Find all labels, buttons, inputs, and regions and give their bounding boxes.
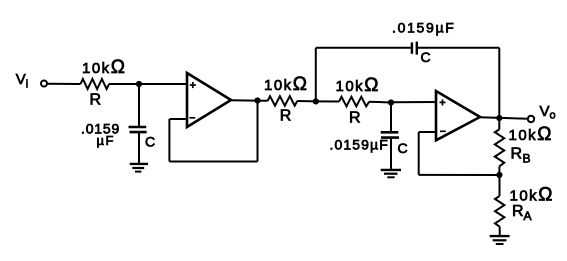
wire node E to RB: [498, 118, 500, 130]
wire node D down to C2: [390, 103, 392, 133]
wire node D to op-amp U2 + input: [391, 101, 436, 103]
capacitor C1: [129, 127, 147, 132]
wire U1 output: [230, 99, 268, 102]
wire U1 feedback right vertical: [257, 101, 259, 162]
node B junction (U1 output / feedback): [254, 97, 260, 103]
svg-text:R: R: [280, 108, 292, 125]
wire input to R1: [47, 83, 80, 85]
wire C1 to ground: [138, 132, 140, 164]
svg-text:.0159µF: .0159µF: [392, 20, 456, 36]
svg-text:µF: µF: [97, 133, 115, 148]
wire RA to ground: [499, 227, 501, 236]
wire R2 to node C: [297, 100, 316, 102]
wire U1 feedback bottom: [169, 161, 257, 163]
wire feedback top left segment: [316, 47, 411, 49]
svg-text:10kΩ: 10kΩ: [336, 75, 380, 96]
svg-text:C: C: [145, 134, 155, 150]
capacitor C2: [381, 132, 399, 137]
svg-text:B: B: [523, 152, 531, 166]
wire U2 output: [479, 117, 528, 118]
resistor RB 10k: [495, 130, 504, 167]
ref label RA: [512, 203, 532, 223]
output terminal Vo: [528, 116, 534, 122]
node F junction: [496, 172, 502, 178]
svg-text:V: V: [16, 71, 26, 88]
capacitor C3 (feedback): [412, 42, 417, 55]
wire C2 to ground: [390, 138, 392, 170]
svg-text:R: R: [511, 146, 523, 163]
svg-text:o: o: [550, 110, 556, 122]
svg-text:C: C: [421, 49, 431, 65]
node Vi label: [16, 71, 28, 91]
wire node C up (feedback riser): [315, 48, 317, 102]
wire node A to op-amp U1 + input: [139, 83, 187, 85]
wire R3 to node D: [369, 101, 391, 104]
ref label RB: [511, 146, 531, 166]
op-amp U2 plus sign: [440, 99, 446, 105]
value label .0159 uF C1: [81, 121, 120, 149]
node D junction: [388, 99, 394, 105]
wire feedback top right segment: [418, 47, 499, 49]
ground under RA: [490, 236, 510, 244]
node C junction: [313, 98, 319, 104]
svg-text:C: C: [398, 140, 408, 156]
svg-text:.0159µF: .0159µF: [330, 137, 389, 153]
wire U1 minus input stub: [169, 118, 186, 120]
wire node A down to C1: [138, 84, 140, 127]
wire U2 minus input stub: [419, 131, 436, 133]
wire R1 to node A: [109, 83, 139, 85]
svg-text:10kΩ: 10kΩ: [82, 57, 126, 78]
op-amp U1 minus sign: [189, 117, 195, 119]
input terminal Vi: [41, 81, 47, 87]
resistor R2 10k: [268, 96, 298, 106]
ground under C1: [130, 164, 148, 172]
wire RB to node F: [498, 166, 500, 175]
wire U2 feedback bottom to node F: [419, 174, 500, 176]
node E junction (U2 output): [496, 115, 502, 121]
svg-text:R: R: [349, 110, 361, 127]
svg-text:R: R: [512, 203, 524, 220]
svg-text:A: A: [524, 209, 532, 223]
svg-text:10kΩ: 10kΩ: [264, 74, 308, 95]
resistor RA 10k: [495, 196, 504, 227]
op-amp U1 plus sign: [190, 82, 196, 88]
wire U2 feedback left vertical: [418, 132, 420, 175]
svg-text:10kΩ: 10kΩ: [509, 124, 553, 145]
svg-text:i: i: [26, 79, 28, 91]
ground under C2: [381, 170, 401, 177]
wire node C to R3: [316, 100, 339, 102]
op-amp U2: [436, 91, 480, 140]
op-amp U1: [187, 73, 231, 127]
wire node F to RA: [499, 175, 501, 196]
wire U1 feedback left vertical: [168, 119, 170, 162]
resistor R3 10k: [339, 97, 369, 107]
node Vo label: [540, 103, 556, 122]
svg-text:V: V: [540, 103, 550, 120]
op-amp U2 minus sign: [440, 130, 446, 132]
resistor R1 10k: [81, 79, 110, 89]
svg-text:R: R: [90, 92, 102, 109]
node A junction: [136, 81, 142, 87]
wire feedback right drop to output: [498, 48, 500, 118]
